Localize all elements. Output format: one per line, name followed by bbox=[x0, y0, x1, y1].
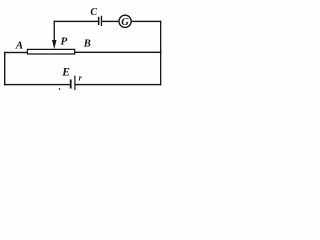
slider P: vertical wire from top corner bbox=[54, 21, 55, 42]
galvanometer G circle bbox=[119, 15, 131, 27]
capacitor right plate bbox=[101, 16, 102, 26]
slider P: arrowhead onto slide wire bbox=[52, 40, 57, 49]
capacitor left plate bbox=[98, 17, 100, 25]
svg-text:P: P bbox=[61, 36, 68, 48]
wire: right vertical bbox=[160, 21, 161, 86]
speck: print artifact near battery bbox=[59, 88, 60, 90]
wire: bottom right, battery to bottom-right corner bbox=[76, 84, 162, 85]
wire: left vertical bbox=[4, 52, 5, 86]
wire: galvanometer to top-right corner bbox=[132, 21, 162, 22]
wire: middle right, B side to right vertical bbox=[75, 52, 162, 53]
node: T junction of B wire and right vertical bbox=[160, 51, 162, 53]
svg-text:B: B bbox=[83, 38, 91, 49]
wire: middle left, left vertical to A end of box bbox=[4, 52, 28, 53]
svg-text:G: G bbox=[121, 17, 129, 28]
svg-text:E: E bbox=[61, 67, 70, 79]
svg-text:A: A bbox=[15, 39, 23, 51]
wire: bottom left, to battery bbox=[4, 84, 70, 85]
battery E: tall thin positive plate bbox=[74, 76, 75, 90]
wire: top, slider corner to capacitor left plate bbox=[54, 21, 99, 22]
resistor: slide wire box A-B bbox=[27, 49, 74, 54]
wire: capacitor to galvanometer bbox=[102, 21, 119, 22]
svg-text:C: C bbox=[90, 7, 97, 18]
battery E: short thick negative plate bbox=[70, 79, 72, 88]
